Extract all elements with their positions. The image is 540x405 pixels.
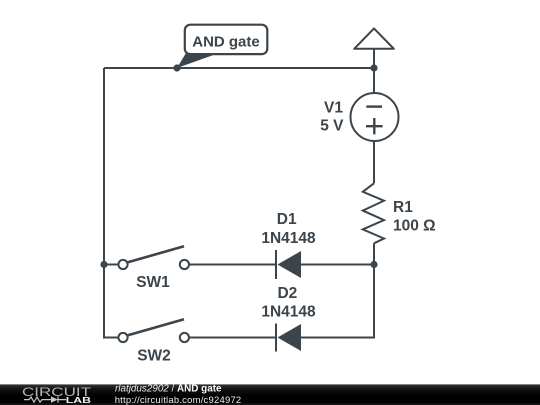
wire: SW2 to D2 xyxy=(189,337,276,339)
wire: SW1 to D1 xyxy=(189,264,276,266)
voltage source V1 xyxy=(351,93,399,141)
wire: left bus vertical down and corner to SW2 xyxy=(104,68,118,338)
svg-text:5 V: 5 V xyxy=(320,118,344,135)
wire: triangle to V1 top xyxy=(373,49,375,94)
svg-text:R1: R1 xyxy=(393,199,413,216)
node: junction dot top wire / right bus xyxy=(370,64,377,71)
diode D2 xyxy=(275,324,277,352)
callout pointer for AND gate label xyxy=(177,53,219,68)
node: junction dot D1 / right bus xyxy=(370,261,377,268)
svg-text:V1: V1 xyxy=(324,100,343,117)
wire: V1 bottom to resistor top xyxy=(373,141,375,183)
svg-text:LAB: LAB xyxy=(66,396,92,405)
wire: left bus to SW1 terminal xyxy=(104,264,118,266)
resistor R1 zigzag xyxy=(363,183,384,243)
wire: D1 to right bus xyxy=(301,264,374,266)
footer bar xyxy=(0,384,540,405)
svg-text:AND gate: AND gate xyxy=(192,33,260,50)
svg-text:1N4148: 1N4148 xyxy=(261,230,316,247)
switch SW2 xyxy=(118,333,127,342)
logo symbol line with resistor and diode xyxy=(24,397,51,402)
node: callout anchor dot on top wire xyxy=(173,64,180,71)
svg-text:D2: D2 xyxy=(277,285,297,302)
svg-text:SW1: SW1 xyxy=(136,274,170,291)
switch SW1 xyxy=(118,260,127,269)
svg-text:SW2: SW2 xyxy=(137,348,171,365)
wire: right bus resistor to D2 row corner xyxy=(301,243,374,337)
svg-text:1N4148: 1N4148 xyxy=(261,304,316,321)
callout box AND gate xyxy=(185,25,267,54)
wire: top horizontal from left bus to right bus xyxy=(104,67,374,69)
node: junction dot SW1 on left bus xyxy=(100,261,107,268)
diode D1 xyxy=(275,250,277,279)
svg-text:http://circuitlab.com/c924972: http://circuitlab.com/c924972 xyxy=(115,395,242,405)
svg-text:rlatjdus2902 / AND gate: rlatjdus2902 / AND gate xyxy=(115,383,222,394)
power flag VCC triangle xyxy=(354,28,394,48)
svg-text:D1: D1 xyxy=(277,211,297,228)
svg-text:100 Ω: 100 Ω xyxy=(393,218,436,235)
